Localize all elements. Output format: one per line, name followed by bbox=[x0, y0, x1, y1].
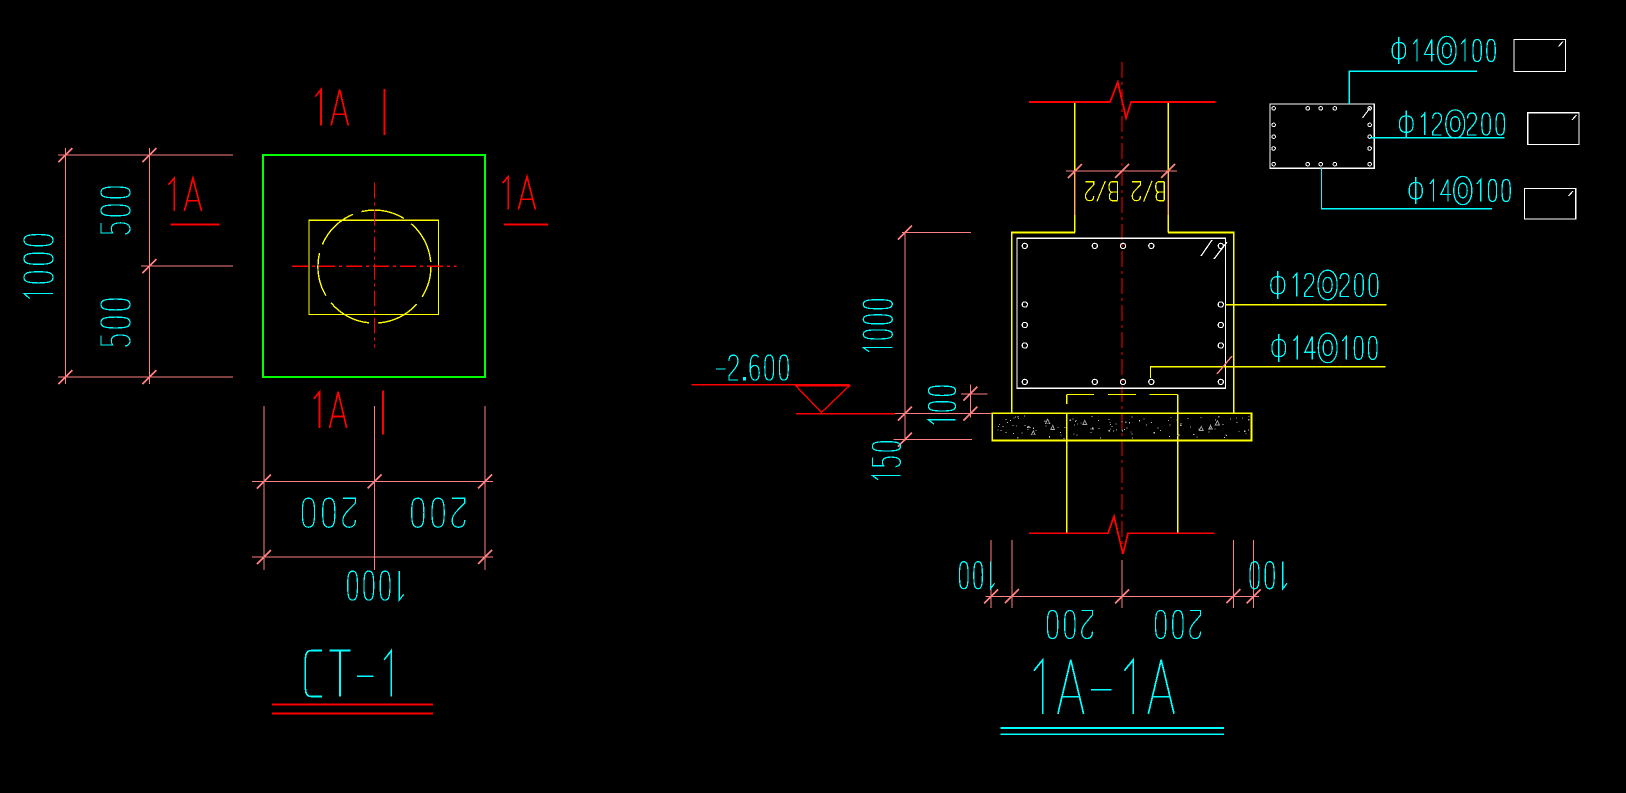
dim text 100 right bbox=[1250, 562, 1287, 589]
dimension ticks embedment bbox=[963, 387, 977, 421]
rebar label phi12@200 legend bbox=[1399, 110, 1504, 138]
dimension ticks column width bbox=[1068, 164, 1175, 178]
title underline 2 (red) bbox=[272, 712, 433, 714]
rebar label phi12@200 section bbox=[1271, 270, 1378, 300]
dim text 1000 left bbox=[24, 235, 53, 299]
centerline horizontal plan bbox=[292, 265, 457, 267]
leader line phi14 section bbox=[1151, 367, 1386, 378]
bedding layer outline (yellow) bbox=[992, 413, 1251, 440]
dim text 100 left bbox=[960, 562, 995, 589]
tag box 2 bbox=[1528, 113, 1579, 145]
dim text 200 left bbox=[302, 498, 355, 527]
centerline section bbox=[1121, 62, 1123, 554]
dim text 200 right bbox=[412, 498, 465, 527]
level text -2.600 bbox=[716, 355, 788, 380]
title 1A-1A bbox=[1034, 660, 1174, 714]
extension line pile top bbox=[961, 393, 987, 395]
concrete speckle hatch bbox=[997, 416, 1249, 439]
dimension line plan bottom first bbox=[252, 481, 493, 483]
extension line plan bottom centre bbox=[374, 406, 376, 570]
level symbol triangle bbox=[796, 386, 850, 413]
dim text 1000 plan bottom bbox=[348, 571, 404, 600]
extension line centre section bbox=[1121, 560, 1123, 608]
embedded pile top (yellow dashed) bbox=[1067, 395, 1178, 414]
label 1A top bbox=[315, 90, 348, 126]
title CT-1 bbox=[305, 650, 391, 696]
extension line top bbox=[58, 154, 233, 156]
level line upper (red) bbox=[692, 384, 850, 386]
tag box 3 bbox=[1524, 189, 1575, 220]
stirrup hook legend bbox=[1363, 107, 1372, 119]
dimension ticks plan bottom bbox=[257, 475, 492, 565]
column right edge section bbox=[1167, 103, 1169, 233]
dimension line outer left bbox=[64, 148, 66, 384]
centerline vertical plan bbox=[374, 183, 376, 348]
label 1A left bbox=[169, 178, 202, 211]
rebar label phi14@100 section bbox=[1272, 333, 1377, 363]
dimension line section bottom bbox=[986, 595, 1260, 597]
stirrup detail rectangle legend bbox=[1270, 104, 1374, 168]
extension line plan bottom left bbox=[263, 406, 265, 570]
tag box 1 bbox=[1514, 39, 1566, 71]
pile cap outline plan (green square) bbox=[263, 155, 485, 377]
title underline 2 (cyan) bbox=[1001, 733, 1224, 735]
dim text B/2 right bbox=[1132, 181, 1164, 202]
level line lower (red) bbox=[796, 413, 895, 415]
dim text 200 section right bbox=[1155, 611, 1200, 639]
dimension ticks section left bbox=[898, 226, 912, 447]
dim text 150 bedding bbox=[872, 442, 900, 480]
extension line cap top bbox=[902, 232, 971, 234]
label 1A right bbox=[503, 177, 536, 210]
rebar label phi14@100 top legend bbox=[1392, 36, 1495, 64]
label 1A bottom bbox=[314, 392, 347, 428]
extension line bottom bbox=[58, 376, 233, 378]
extension line cap left bbox=[1011, 540, 1013, 608]
section mark left underline bbox=[170, 224, 219, 226]
column outline plan (yellow rectangle) bbox=[309, 220, 439, 314]
break line top (red) bbox=[1029, 82, 1216, 118]
extension line cap right bbox=[1232, 540, 1234, 608]
dimension line column width bbox=[1066, 170, 1177, 172]
stirrup hook marks bbox=[1201, 240, 1227, 259]
dimension line inner left bbox=[148, 148, 150, 384]
leader line phi14 top legend bbox=[1349, 71, 1477, 104]
break line bottom (red) bbox=[1029, 516, 1215, 554]
pile left edge bbox=[1066, 413, 1068, 533]
extension line plan bottom right bbox=[484, 406, 486, 570]
extension line bedding top bbox=[895, 413, 992, 415]
dim text 500 lower bbox=[101, 299, 130, 346]
stirrup rectangle (white) bbox=[1017, 238, 1225, 388]
dimension ticks section bottom bbox=[984, 589, 1260, 603]
pile right edge bbox=[1177, 413, 1179, 533]
dim text 100 embedment bbox=[928, 386, 955, 424]
extension line strip right bbox=[1253, 540, 1255, 608]
rebar dots legend bbox=[1272, 107, 1372, 166]
dim text 200 section left bbox=[1047, 611, 1092, 639]
dim text 500 upper bbox=[101, 187, 130, 234]
pile circle plan (yellow dashed circle) bbox=[318, 210, 431, 323]
leader line phi12 legend bbox=[1370, 137, 1505, 139]
title underline 1 (cyan) bbox=[1001, 727, 1224, 729]
extension line strip left bbox=[990, 540, 992, 608]
dimension line section left bbox=[904, 232, 906, 441]
rebar dots section stirrup bbox=[1022, 243, 1223, 384]
extension line bedding bottom bbox=[894, 439, 972, 441]
column left edge section bbox=[1074, 103, 1076, 233]
extension line middle bbox=[141, 265, 233, 267]
leader line phi14 bottom legend bbox=[1322, 168, 1493, 209]
title underline 1 (red) bbox=[272, 703, 433, 705]
dimension ticks left chains bbox=[58, 148, 156, 384]
section cut mark bottom bbox=[382, 390, 384, 434]
pile cap outline section (yellow) bbox=[1012, 233, 1234, 414]
leader line phi12 section bbox=[1225, 304, 1386, 306]
section cut mark top bbox=[383, 89, 385, 135]
extension line column right bbox=[1167, 171, 1169, 215]
tick on leader at cap edge bbox=[1217, 356, 1232, 374]
section mark right underline bbox=[504, 224, 548, 226]
dim text B/2 left bbox=[1086, 181, 1118, 202]
rebar label phi14@100 bottom legend bbox=[1409, 176, 1510, 204]
dimension line embedment bbox=[969, 385, 971, 418]
dimension line plan bottom second bbox=[252, 556, 493, 558]
extension line column left bbox=[1074, 171, 1076, 215]
dim text 1000 section bbox=[863, 300, 892, 352]
